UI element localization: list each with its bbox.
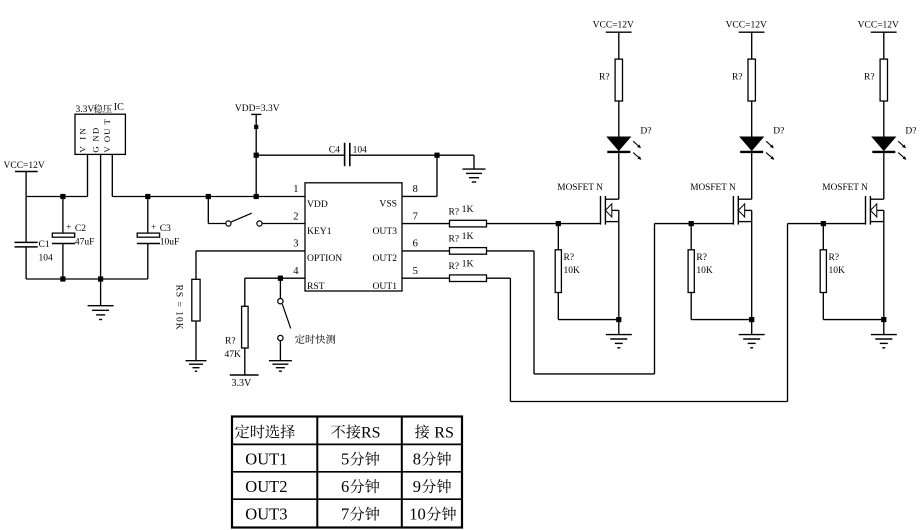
svg-text:OUT1: OUT1 [245,450,287,469]
resistor R? 47K [242,306,249,348]
node junction C3 top [145,194,150,199]
svg-text:G ND: G ND [90,127,100,153]
ground RS [186,360,207,362]
LED D? (stage 2) [740,137,763,150]
switch KEY1 [226,221,231,226]
LED emission arrows [766,141,772,146]
svg-text:10K: 10K [564,266,581,276]
svg-text:1K: 1K [462,231,474,242]
svg-text:47uF: 47uF [75,237,95,247]
svg-text:10K: 10K [696,266,713,276]
svg-text:R?: R? [599,72,610,82]
LED D? (stage 1) [607,137,630,150]
svg-text:104: 104 [353,145,368,155]
table header 接RS [415,424,429,438]
resistor RS 10K [192,279,200,321]
svg-text:10K: 10K [829,266,846,276]
LED emission arrows [898,141,904,146]
svg-text:OUT2: OUT2 [245,477,287,496]
wire source down [618,210,620,319]
svg-text:RS: RS [361,424,381,441]
wire switch to pin2 [262,223,305,225]
wire VCC stem [751,32,753,59]
svg-text:MOSFET N: MOSFET N [557,183,603,193]
svg-text:VDD: VDD [307,199,328,210]
wire VCC rail to VIN [26,196,87,198]
svg-text:5: 5 [413,266,418,277]
wire 3.3V rail (VOUT to chip pin1) [112,196,305,198]
label 3.3V稳压 IC title [93,104,102,113]
node junction C2 top [60,194,65,199]
svg-text:D?: D? [773,126,784,136]
label 定时快测 (timing quick test) [295,334,305,343]
wire pin8 riser [436,155,438,196]
table header 定时选择 [235,425,249,439]
svg-text:OUT3: OUT3 [245,505,287,524]
wire pin5 route [487,277,511,279]
wire to switch [208,223,226,225]
wire RS to ground [195,321,197,361]
svg-text:R?: R? [449,262,460,272]
wire source down [883,210,885,319]
wire GND pin down [100,154,102,279]
LED emission arrows [633,141,639,146]
wire C4 right [351,154,475,156]
svg-text:1: 1 [293,184,298,195]
svg-text:7: 7 [413,211,418,222]
svg-text:8: 8 [413,184,418,195]
wire 10K to source rail [690,293,692,320]
capacitor C4 104 [344,143,346,166]
wire down to 47K [244,278,246,306]
wire bottom rail [26,278,148,280]
svg-text:+: + [66,222,71,232]
svg-text:VDD=3.3V: VDD=3.3V [235,104,280,114]
resistor R? 10K (stage 1) [557,224,559,250]
wire 47K to 3.3V [244,348,246,375]
svg-text:4: 4 [293,266,299,277]
svg-text:OUT3: OUT3 [372,226,397,237]
resistor R? (stage 1 load) [615,59,622,101]
ground test switch [269,360,292,362]
power port 3.3V [230,374,259,376]
node junction C2 bottom [60,276,65,281]
wire pin3 OPTION [196,250,305,252]
svg-text:C3: C3 [160,224,171,234]
svg-text:7: 7 [341,505,349,524]
op-chip U1 timer IC [305,183,402,291]
resistor R? (stage 2 load) [748,59,755,101]
svg-text:R?: R? [449,207,460,217]
wire pin7 to gate 1 [487,223,601,225]
svg-text:R?: R? [732,72,743,82]
table header 不接RS [331,425,345,439]
svg-text:1K: 1K [462,258,474,269]
switch S2 timing quick test [278,299,283,304]
wire KEY1 branch down [207,197,209,224]
svg-text:OPTION: OPTION [307,253,342,264]
capacitor C3 10uF (polarized) [147,197,149,234]
svg-text:3.3V: 3.3V [76,105,95,115]
node junction GND stem [98,276,103,281]
table: timing selection [232,417,462,528]
svg-text:RS: RS [434,424,454,441]
svg-text:VCC=12V: VCC=12V [4,161,45,171]
table column lines [316,417,318,527]
svg-text:1K: 1K [462,204,474,215]
node dot on VDD stem [254,125,258,129]
LED D? (stage 3) [872,137,895,150]
resistor R? 1K (pin 5) [450,275,487,282]
node junction gate/10K (stage 2) [689,221,694,226]
wire C4 left [256,154,344,156]
wire pin4 RST [245,277,305,279]
svg-text:C2: C2 [75,224,86,234]
wire pin5 [402,277,450,279]
resistor R? (stage 3 load) [880,59,887,101]
wire 10K to source rail [557,293,559,320]
svg-text:C4: C4 [329,145,340,155]
svg-text:9: 9 [413,477,421,496]
svg-text:KEY1: KEY1 [307,226,332,237]
wire VCC stem [618,32,620,59]
wire pin7 [402,223,450,225]
node junction test-switch branch [278,276,283,281]
resistor R? 10K (stage 2) [690,224,692,250]
ground stage 2 [751,320,753,335]
svg-text:2: 2 [293,211,298,222]
node junction C4 branch [254,153,259,158]
wire LED to drain [618,153,620,199]
svg-text:RST: RST [307,281,325,292]
regulator U2 3.3V LDO box [75,114,125,154]
node junction gate/10K (stage 3) [821,221,826,226]
svg-text:VSS: VSS [379,199,397,210]
node junction VDD [254,194,259,199]
wire switch to ground [279,341,281,361]
node junction KEY1 branch [206,194,211,199]
svg-text:104: 104 [39,254,54,264]
capacitor C2 47uF (polarized) [62,197,64,234]
capacitor C1 104 [25,197,27,243]
svg-text:47K: 47K [225,350,242,360]
svg-text:VCC=12V: VCC=12V [593,21,634,31]
svg-text:D?: D? [905,126,916,136]
svg-text:RS = 10K: RS = 10K [174,285,184,331]
svg-text:R?: R? [564,253,575,263]
svg-text:3: 3 [293,239,298,250]
svg-text:R?: R? [829,253,840,263]
svg-text:IC: IC [114,102,124,113]
node junction source/ground [616,317,621,322]
svg-text:R?: R? [225,337,236,347]
resistor R? 10K (stage 3) [822,224,824,250]
svg-text:VCC=12V: VCC=12V [726,21,767,31]
node junction source/ground [881,317,886,322]
svg-text:R?: R? [449,235,460,245]
wire LED to drain [883,153,885,199]
svg-text:C1: C1 [39,240,50,250]
wire VCC stem [25,172,27,197]
wire LED to drain [751,153,753,199]
svg-text:6: 6 [413,239,418,250]
wire resistor to LED [751,101,753,137]
ground C4/VSS [463,168,486,170]
wire pin6 route [487,250,535,252]
node junction pin8 riser [434,153,439,158]
wire pin8 [402,195,437,197]
svg-text:3.3V: 3.3V [232,378,253,389]
wire VSS ground stub [473,155,475,169]
svg-text:OUT2: OUT2 [372,253,397,264]
ground stage 1 [618,320,620,335]
ground stage 3 [883,320,885,335]
svg-text:10uF: 10uF [160,237,180,247]
ground main (left) [100,279,102,306]
svg-text:V IN: V IN [77,126,87,152]
wire VOUT pin down [111,154,113,196]
svg-text:V OU T: V OU T [102,118,112,153]
svg-text:OUT1: OUT1 [372,281,397,292]
wire resistor to LED [883,101,885,137]
svg-text:5: 5 [341,450,349,469]
resistor R? 1K (pin 6) [450,248,487,255]
resistor R? 1K (pin 7) [450,220,487,227]
wire VCC stem [883,32,885,59]
svg-text:+: + [151,222,156,232]
svg-text:VCC=12V: VCC=12V [858,21,899,31]
wire 10K to source rail [822,293,824,320]
wire switch branch [279,278,281,298]
node junction source/ground [749,317,754,322]
svg-text:R?: R? [864,72,875,82]
svg-text:8: 8 [413,450,421,469]
node junction gate/10K (stage 1) [556,221,561,226]
svg-text:10: 10 [409,505,426,524]
svg-text:MOSFET N: MOSFET N [822,183,868,193]
svg-text:6: 6 [341,477,349,496]
wire pin6 [402,250,450,252]
table row lines [233,443,461,445]
wire source down [751,210,753,319]
svg-text:MOSFET N: MOSFET N [690,183,736,193]
wire resistor to LED [618,101,620,137]
svg-text:R?: R? [696,253,707,263]
wire VDD stem [255,114,257,196]
svg-text:D?: D? [640,126,651,136]
